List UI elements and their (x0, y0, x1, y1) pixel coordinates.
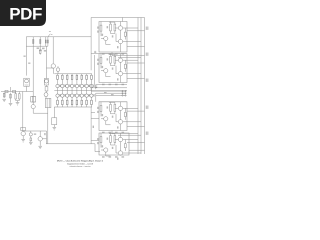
transistor Q2 package (44, 79, 48, 86)
transistor Q11 upper with resistor (61, 74, 63, 91)
wire stub U3 link (91, 111, 95, 113)
capacitor C4 (94, 51, 96, 52)
wire U1 out a (123, 27, 138, 29)
transistor Q25 lower with resistor (81, 91, 83, 107)
U4 part labels (102, 145, 104, 147)
transistor Q22 (118, 58, 122, 62)
wire comb bottom rail (54, 106, 92, 108)
net labels (24, 56, 26, 57)
transistor Q43 (118, 151, 122, 155)
svg-text:MC70 — Class A Discrete Steppe: MC70 — Class A Discrete Stepper Amp 1 Va… (57, 160, 104, 163)
transistor Q12 upper with resistor (66, 74, 68, 91)
wire supply bus V+ (137, 18, 139, 155)
transistor Q14 upper with resistor (76, 74, 78, 91)
resistor R34 (124, 112, 126, 116)
wire rail drop A (90, 107, 92, 144)
bank value labels (37, 47, 40, 49)
resistor R44 (124, 144, 126, 148)
transistor Q11 (104, 36, 108, 40)
ground (38, 146, 42, 148)
wire U2 out b (123, 73, 141, 75)
wire supply bus 0V (140, 18, 142, 155)
transistor Q6 (56, 68, 60, 72)
wire U1 bottom link (112, 52, 145, 58)
net label (145, 106, 148, 109)
wire U1 out b (123, 41, 141, 43)
wire input line (1, 91, 33, 93)
part labels col 2 (69, 84, 70, 87)
wire U1 out c (127, 30, 145, 32)
part labels col 6 (89, 84, 90, 87)
resistor R6 (32, 46, 35, 96)
transistor Q33 (118, 120, 122, 124)
wire U3 out a (123, 107, 138, 109)
resistor R21 (100, 54, 102, 69)
transistor Q41 (104, 148, 108, 152)
net label (145, 27, 148, 30)
wire U2 to V- (127, 78, 145, 80)
wire top supply rail (26, 36, 91, 38)
resistor R13 bank column (45, 37, 47, 46)
wire U3 bottom link (112, 131, 141, 136)
transistor Q23 (118, 72, 122, 76)
part labels col 7 (93, 84, 94, 87)
transistor Q7 (21, 131, 25, 135)
wire U3 feed (96, 93, 126, 102)
transistor Q13 upper with resistor (71, 74, 73, 91)
transistor Q21 (104, 69, 108, 73)
ground (2, 99, 6, 101)
wire interstage a (96, 85, 127, 90)
wire U4 out a (123, 139, 138, 141)
PDF badge background (0, 0, 46, 26)
resistor R31 (100, 102, 102, 117)
capacitor C1 (5, 90, 8, 92)
transistor Q24 lower with resistor (76, 91, 78, 107)
connector J1 pads (122, 90, 123, 91)
wire bus segment (90, 37, 92, 50)
resistor R14 (124, 32, 126, 36)
resistor R9 tail (39, 46, 41, 50)
net labels (104, 92, 107, 94)
resistor R32 (110, 104, 112, 111)
transistor Q5 (51, 64, 55, 68)
wire driver link (46, 67, 53, 69)
transistor Q31 (104, 117, 108, 121)
resistor R7 (34, 96, 36, 102)
transistor Q26 lower with resistor (86, 91, 88, 107)
resistor R42 (110, 136, 112, 143)
wire feedback drop (22, 92, 24, 132)
transistor Q20 lower with resistor (57, 91, 59, 107)
transistor Q12 (118, 26, 122, 30)
resistor R41 (100, 133, 102, 148)
wire bank lower rail (26, 45, 48, 47)
wire bottom bus (46, 144, 100, 152)
resistor R5 (19, 94, 21, 99)
U2 part labels (102, 66, 104, 68)
ground (21, 140, 25, 142)
net label (145, 53, 148, 56)
resistor R11 bank column (32, 37, 34, 46)
resistor R33 (114, 104, 116, 111)
wire interstage b (91, 84, 127, 91)
value labels (34, 133, 36, 135)
resistor R23 (114, 56, 116, 63)
ground (16, 103, 20, 105)
net label (145, 132, 148, 135)
transistor Q42 (118, 137, 122, 141)
resistor R10 bank column (25, 37, 27, 46)
resistor R14 bank column (47, 37, 49, 46)
transistor Q10 upper with resistor (57, 74, 59, 91)
wire U4 feed (91, 140, 99, 142)
resistor R3 (3, 93, 5, 98)
wire block2 left chain (94, 55, 96, 85)
resistor R22 (110, 56, 112, 63)
transistor Q16 upper with resistor (86, 74, 88, 91)
resistor R13 (114, 24, 116, 31)
resistor R4 (15, 94, 17, 99)
resistor R24 (124, 64, 126, 68)
wire U3 out c (127, 110, 145, 112)
relay RL1 and wire (45, 98, 51, 107)
capacitor C3 bank (53, 107, 55, 118)
ground (29, 142, 33, 144)
transistor Q4 (31, 105, 35, 109)
wire U2 out c (127, 62, 145, 64)
wire driver feed (52, 37, 54, 64)
resistor R12 (110, 24, 112, 31)
wire comb top rail (54, 73, 92, 75)
transistor Q8 (38, 137, 42, 141)
wire U3 out b (123, 121, 141, 123)
U3 part labels (102, 114, 104, 116)
wire interstage d (96, 94, 126, 96)
capacitor C5 (95, 86, 97, 87)
wire main vertical bus (90, 18, 92, 71)
part labels col 0 (59, 84, 60, 87)
node VREF tick (48, 31, 51, 36)
resistor R11 (100, 22, 102, 37)
transistor Q13 (118, 39, 122, 43)
transistor Q32 (118, 106, 122, 110)
wire U2 feed (91, 53, 99, 55)
net label (145, 79, 148, 82)
wire right drop (45, 46, 47, 78)
part labels col 1 (64, 84, 65, 87)
transistor Q23 lower with resistor (71, 91, 73, 107)
transistor Q17 upper with resistor (90, 74, 92, 91)
wire interstage c (91, 90, 126, 92)
wire U4 out b (123, 152, 141, 154)
net label (93, 126, 94, 128)
wire U4 to V- (129, 149, 145, 151)
amplifier block U4 box (99, 133, 129, 155)
amplifier block U3 box (99, 102, 127, 131)
wire U2 out a (123, 59, 138, 61)
part labels col 5 (84, 84, 85, 87)
wire U3 left feed (91, 118, 99, 120)
ground (53, 128, 57, 130)
amplifier block U2 box (99, 54, 127, 83)
resistor R2 (13, 90, 16, 92)
wire zobel rail (23, 131, 47, 144)
amplifier block U1 box (99, 22, 127, 53)
ground (9, 103, 13, 105)
transistor Q27 lower with resistor (90, 91, 92, 107)
transistor Q21 lower with resistor (61, 91, 63, 107)
svg-text:Imagination from October — Low: Imagination from October — Low DS (67, 163, 94, 166)
svg-text:PDF: PDF (9, 4, 42, 23)
wire comb mid rail (54, 90, 127, 92)
resistor R12 bank column (39, 37, 41, 46)
wire U1 feed (121, 18, 123, 22)
diode D1 chain (30, 131, 32, 133)
transistor Q22 lower with resistor (66, 91, 68, 107)
wire supply bus V- (144, 18, 146, 155)
resistor R43 (114, 136, 116, 143)
part labels col 3 (74, 84, 75, 87)
wire U1 to V- (127, 46, 145, 48)
resistor R8 (45, 87, 48, 92)
U1 part labels (102, 34, 104, 36)
wire U3 to V- (127, 126, 145, 128)
part labels col 4 (79, 84, 80, 87)
wire node B (33, 112, 48, 114)
wire U4 out c (127, 141, 145, 143)
transistor Q15 upper with resistor (81, 74, 83, 91)
wire top feed (91, 17, 144, 19)
transistor Q3 (44, 93, 48, 97)
transistor Q1 package (24, 78, 29, 86)
wire left drop (25, 46, 27, 75)
capacitor C2 (10, 87, 12, 103)
inductor L1 (21, 127, 26, 130)
